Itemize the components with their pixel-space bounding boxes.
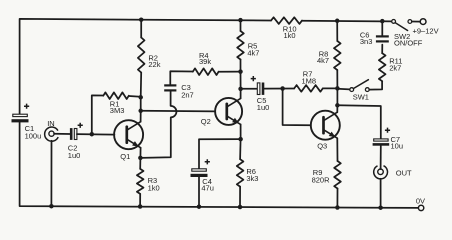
label SW1 [353,92,369,101]
node junction R5 top [238,18,243,23]
resistor R11 [379,53,386,81]
label R10 value [283,24,297,40]
wire C7 to OUT jack [380,146,382,169]
label Q3 [317,141,327,150]
label C7 value [391,135,404,151]
label R9 value [312,168,331,185]
svg-text:1k0: 1k0 [284,31,296,40]
wire Q1 collector [140,111,142,122]
wire SW2 to supply terminal [412,21,420,23]
wire C2 to Q1 base [77,133,115,136]
transistor Q2 [215,98,242,125]
svg-text:2k7: 2k7 [389,63,401,72]
capacitor C6 [376,35,389,42]
label R4 value [199,51,211,66]
wire Q3 base branch [283,89,311,126]
label R11 value [389,57,402,73]
label C2 value [68,144,81,160]
wire R4 right lead [219,71,241,73]
label R6 value [246,167,258,183]
wire IN shield to 0V rail [50,141,52,206]
wire C3 top to R4 [170,71,193,84]
wire R6 top lead [239,139,242,159]
wire IN center to C2 [54,133,70,135]
svg-text:Q3: Q3 [317,141,327,150]
capacitor C5 [257,83,264,95]
wire R3 bottom lead [139,194,141,207]
wire R8 top lead [336,21,338,41]
svg-text:820R: 820R [312,176,331,185]
node junction R9 to rail [335,205,340,210]
capacitor C7 [373,139,390,146]
capacitor C4 plus [205,159,210,164]
wire OUT shield to rail [380,179,382,208]
svg-text:SW1: SW1 [353,92,369,101]
label C5 value [257,96,270,112]
wire Q1 collector node to Q2 base [141,110,215,113]
node junction C6 top [380,19,385,24]
node junction R7/R8/SW1 [335,86,340,91]
node junction OUT to rail [378,205,383,210]
svg-text:ON/OFF: ON/OFF [394,38,423,47]
svg-text:1u0: 1u0 [257,103,270,112]
jack IN [45,127,59,141]
switch SW1 right contact [365,88,369,92]
wire collector node to C5 [241,88,258,90]
wire R7 right lead [323,87,338,89]
wire R8 node to SW1 [337,88,349,91]
node junction R3 to rail [138,204,143,209]
terminal +9-12V [420,19,426,25]
wire SW1 to R11 [369,81,382,89]
capacitor C7 plus [385,128,390,133]
node junction C5/R7/Q3 base [280,86,285,91]
node junction R6 to rail [238,205,243,210]
svg-text:4k7: 4k7 [317,56,329,65]
capacitor C4 [191,169,208,177]
node junction Q1 collector/base wire [138,109,143,114]
label Q2 [201,117,211,126]
label R8 value [317,49,329,65]
jack OUT [374,166,388,179]
svg-text:Q2: Q2 [201,117,211,126]
wire C4 bottom lead [198,177,200,207]
wire Q2 emitter [240,124,242,139]
label R2 value [148,53,160,69]
wire R2 top lead [140,20,142,38]
svg-text:1M8: 1M8 [302,77,317,86]
wire R2 bottom lead [140,73,143,98]
wire R6 bottom lead [239,187,241,207]
svg-text:39k: 39k [199,57,211,66]
resistor R7 [294,85,323,92]
resistor R5 [237,31,244,60]
capacitor C2 plus [78,123,83,128]
label R1 value [110,100,125,115]
node junction R2 top [139,17,144,22]
resistor R6 [237,159,244,186]
switch SW2 right contact [408,20,412,24]
capacitor C1 plus [24,104,29,109]
svg-text:3M3: 3M3 [110,106,125,115]
wire R3 top lead [139,158,141,169]
wire R5 top lead [240,20,242,31]
wire top supply rail right of R10 [302,20,392,23]
resistor R4 [193,68,219,75]
wire Q3 collector node to C7 [337,105,380,139]
label SW2 [394,32,423,47]
wire Q2 collector [240,89,242,99]
svg-text:OUT: OUT [396,169,412,178]
node junction C2/R1 [90,132,95,137]
svg-text:10u: 10u [391,142,404,151]
svg-text:100u: 100u [25,131,42,140]
label C6 value [360,30,373,46]
wire R1 left drop [92,95,104,134]
switch SW1 left contact [350,88,354,92]
wire R2 node to base node [140,97,142,111]
switch SW2 left contact [392,20,396,24]
wire bottom 0V rail [20,122,419,207]
wire C6 top lead [381,21,383,35]
resistor R8 [334,41,341,70]
capacitor C1 [12,114,29,122]
label supply voltage [413,26,439,35]
label C1 value [25,124,42,140]
wire top supply rail left of R10 [20,19,271,114]
resistor R2 [138,38,145,73]
resistor R1 [103,92,129,99]
svg-text:3k3: 3k3 [246,174,258,183]
terminal 0V [418,205,423,210]
wire R5 node to collector node [240,72,242,89]
wire R8 node to Q3 collector node [336,88,338,105]
node junction R4/R5 [238,69,243,74]
wire R9 bottom lead [336,189,338,208]
label R7 value [302,70,317,86]
wire R5 bottom lead [240,60,242,72]
resistor R10 [271,17,302,24]
svg-text:22k: 22k [148,60,160,69]
wire Q3 emitter [336,138,338,161]
svg-text:2n7: 2n7 [181,91,194,100]
capacitor C5 plus [251,76,256,81]
wire R8 bottom lead [336,70,338,88]
node junction R1/R2 [138,95,143,100]
label 0V [416,197,425,206]
transistor Q3 [311,111,340,140]
label C4 value [201,177,214,192]
node junction IN shield to rail [49,204,54,209]
svg-text:1u0: 1u0 [68,151,81,160]
resistor R9 [334,161,341,189]
wire Q3 collector [336,105,338,112]
svg-text:3n3: 3n3 [360,37,373,46]
label C3 value [181,83,194,99]
svg-text:Q1: Q1 [120,152,130,161]
node junction R8 top [335,19,340,24]
label R3 value [148,176,160,192]
node junction Q2 collector/C5 [238,87,243,92]
capacitor C3 [164,84,176,91]
wire Q2 emitter to C4 [199,139,241,169]
node junction C4 to rail [197,204,202,209]
svg-text:0V: 0V [416,197,425,206]
svg-text:+9–12V: +9–12V [413,26,439,35]
label Q1 [120,152,130,161]
resistor R3 [137,169,144,194]
svg-text:47u: 47u [201,184,214,193]
switch SW2 arm [395,23,407,31]
svg-text:1k0: 1k0 [148,183,160,192]
node junction Q1 emitter [138,156,143,161]
transistor Q1 [114,120,143,149]
wire C3 bottom hop over base wire to Q1 emitter [140,92,176,158]
label OUT [396,169,412,178]
node junction Q2 emitter [238,137,243,142]
svg-text:4k7: 4k7 [247,48,259,57]
wire C5 to R7 [264,88,294,90]
wire Q1 emitter [139,148,141,158]
wire R1 right lead [129,95,141,98]
label IN [47,119,55,128]
wire R11 to C6 [381,45,383,54]
node junction Q3 collector/C7 [335,103,340,108]
capacitor C2 [70,128,77,140]
switch SW1 arm [354,80,369,89]
label R5 value [247,42,259,58]
